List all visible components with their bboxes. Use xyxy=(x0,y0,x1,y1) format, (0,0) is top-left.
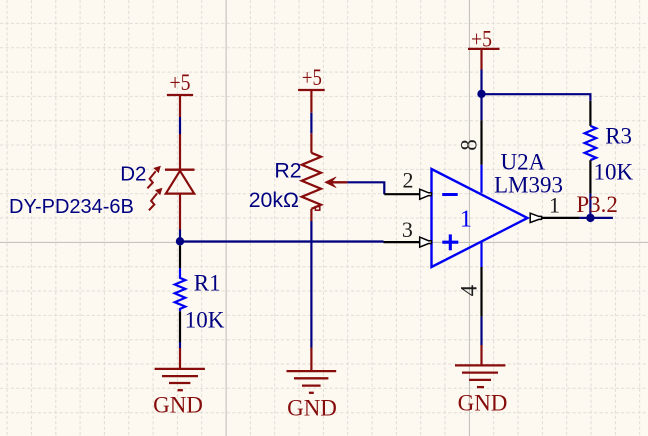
junction node C xyxy=(586,214,594,222)
svg-text:P3.2: P3.2 xyxy=(576,192,618,217)
pin 8 xyxy=(457,120,482,193)
photodiode D2 xyxy=(165,134,195,230)
svg-text:8: 8 xyxy=(457,139,482,151)
ground GND (U2A) xyxy=(455,345,507,416)
resistor R3 xyxy=(585,101,597,194)
pin 3 xyxy=(384,217,432,247)
wire pin 4 to ground xyxy=(480,317,482,345)
wire R2 wiper to pin 2 xyxy=(347,182,384,194)
R2 wiper arrow xyxy=(325,177,336,188)
pin 2 xyxy=(384,168,431,200)
wire +5 to R2 xyxy=(310,113,312,134)
svg-text:+5: +5 xyxy=(302,65,322,90)
power +5 (R2 branch) xyxy=(298,65,325,113)
wire output to node C xyxy=(579,217,590,219)
svg-text:U2A: U2A xyxy=(501,149,546,174)
svg-text:GND: GND xyxy=(458,391,508,416)
svg-text:1: 1 xyxy=(549,192,560,217)
svg-text:2: 2 xyxy=(403,168,414,193)
resistor R1 xyxy=(175,246,186,343)
pin 4 xyxy=(457,242,482,316)
wire node A to pin 3 xyxy=(180,240,384,242)
wire R2 bottom to ground xyxy=(310,221,312,348)
svg-text:D2: D2 xyxy=(120,162,146,185)
wire R3 to node C xyxy=(589,194,591,218)
svg-text:+5: +5 xyxy=(471,26,492,51)
ground GND (R2) xyxy=(287,348,337,421)
junction node A xyxy=(176,237,184,245)
svg-text:+5: +5 xyxy=(170,70,191,95)
wire R1 to ground xyxy=(179,342,181,348)
wire +5 to D2 xyxy=(179,117,181,134)
svg-text:20kΩ: 20kΩ xyxy=(249,188,299,212)
pin 1 output xyxy=(530,192,579,222)
svg-text:4: 4 xyxy=(457,284,482,296)
wire node C stub xyxy=(590,217,613,219)
svg-text:1: 1 xyxy=(460,206,472,233)
svg-text:R3: R3 xyxy=(605,124,632,149)
wire node B to R3 xyxy=(482,94,591,101)
R2 pin marker square xyxy=(315,207,319,211)
D2 light arrow 1 xyxy=(147,166,160,188)
ground GND (R1) xyxy=(153,348,205,418)
power +5 (photodiode branch) xyxy=(167,70,193,117)
svg-text:10K: 10K xyxy=(185,308,225,333)
potentiometer R2 xyxy=(302,133,348,221)
svg-text:10K: 10K xyxy=(594,160,634,185)
junction node B xyxy=(477,90,485,98)
svg-text:GND: GND xyxy=(153,393,203,418)
op-amp U2A xyxy=(432,169,528,267)
svg-text:3: 3 xyxy=(402,217,413,242)
D2 light arrow 2 xyxy=(149,188,162,210)
svg-text:R2: R2 xyxy=(274,158,301,182)
power +5 (U2A branch) xyxy=(468,26,500,69)
svg-text:DY-PD234-6B: DY-PD234-6B xyxy=(9,196,134,218)
svg-text:GND: GND xyxy=(287,396,337,421)
wire D2 to node A xyxy=(179,230,181,242)
wire +5 to pin 8 / R3 xyxy=(480,70,482,121)
svg-text:R1: R1 xyxy=(194,270,221,295)
